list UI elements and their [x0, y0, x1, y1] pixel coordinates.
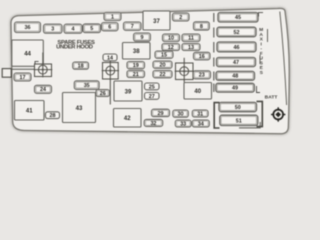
fuse 26: [96, 90, 110, 97]
svg-text:37: 37: [153, 19, 160, 25]
stud bolt B2: [102, 62, 119, 80]
fuse 29: [152, 109, 170, 117]
fuse 50: [219, 102, 257, 111]
svg-text:42: 42: [124, 116, 131, 122]
fuse 25: [145, 83, 160, 90]
fuse 45: [218, 13, 258, 23]
fuse 9: [134, 33, 151, 41]
fuse 28: [46, 112, 60, 119]
fuse 3: [44, 24, 63, 33]
svg-text:1: 1: [111, 14, 114, 20]
svg-text:9: 9: [141, 35, 144, 41]
fuse 27: [145, 93, 160, 100]
wire: stud 1 feed line from tab: [11, 68, 35, 70]
right rail mark B: [259, 55, 261, 64]
fuse 31: [192, 110, 208, 117]
bracket 50/51 right: [257, 101, 263, 126]
maxi fuse right corner bracket top: [259, 13, 264, 17]
svg-text:4: 4: [72, 27, 75, 33]
svg-text:27: 27: [149, 94, 155, 100]
fuse 4: [64, 24, 82, 33]
svg-text:20: 20: [160, 63, 166, 69]
fuse 33: [175, 120, 191, 127]
svg-text:13: 13: [188, 45, 194, 51]
battery terminal bolt: [271, 107, 285, 121]
fuse 13: [182, 44, 200, 51]
svg-text:51: 51: [236, 118, 242, 124]
svg-text:38: 38: [133, 49, 140, 55]
wire: stud 1 vertical: [42, 53, 44, 77]
relay 40: [184, 83, 212, 100]
fuse 51: [220, 115, 258, 125]
fuse 2: [173, 13, 190, 21]
fuse 24: [35, 85, 52, 93]
fuse 49: [216, 83, 255, 92]
fuse box outer housing: [11, 8, 289, 133]
fuse 20: [153, 61, 172, 69]
svg-text:12: 12: [168, 45, 174, 51]
svg-text:30: 30: [178, 112, 184, 118]
stud bolt B1: [34, 63, 53, 77]
fuse 12: [162, 44, 180, 51]
fuse 34: [192, 120, 209, 127]
svg-text:26: 26: [100, 91, 106, 97]
right side inner bevel edge: [280, 12, 287, 106]
svg-text:28: 28: [50, 113, 56, 119]
fuse 17: [14, 73, 31, 81]
fuse 11: [182, 34, 200, 42]
soft scan fuzz under housing outline: [11, 8, 289, 133]
svg-text:2: 2: [179, 15, 182, 21]
fuse 21: [127, 71, 145, 78]
svg-text:35: 35: [84, 83, 90, 89]
fuse 16: [194, 52, 211, 60]
svg-text:25: 25: [149, 84, 155, 90]
svg-text:32: 32: [150, 121, 156, 127]
svg-text:15: 15: [161, 53, 167, 59]
fuse 47: [217, 58, 256, 67]
maxi fuse left rail marks: [213, 13, 215, 22]
svg-text:48: 48: [232, 74, 238, 80]
svg-text:19: 19: [133, 63, 139, 69]
fuse 5: [83, 24, 101, 33]
svg-text:47: 47: [233, 60, 239, 66]
fuse 48: [216, 71, 255, 80]
svg-text:45: 45: [235, 15, 241, 21]
relay 44: [12, 40, 44, 66]
svg-text:33: 33: [180, 121, 186, 127]
svg-text:7: 7: [131, 24, 134, 30]
bracket mark near B1: [35, 61, 39, 64]
svg-text:17: 17: [20, 75, 26, 81]
svg-text:6: 6: [108, 25, 111, 31]
svg-text:40: 40: [194, 89, 201, 95]
fuse 19: [127, 62, 145, 70]
relay 42: [114, 109, 142, 128]
fuse 18: [73, 62, 89, 70]
svg-text:8: 8: [200, 24, 203, 30]
svg-text:50: 50: [235, 105, 241, 111]
fuse 1: [104, 13, 121, 21]
left edge mounting tab: [2, 69, 11, 78]
fuse 52: [217, 27, 256, 37]
fuse 32: [144, 119, 163, 126]
fuse 51 shadow edge: [239, 122, 260, 128]
fuse 46: [217, 42, 256, 52]
svg-text:31: 31: [197, 111, 203, 117]
svg-text:3: 3: [51, 27, 54, 33]
svg-text:16: 16: [199, 54, 205, 60]
svg-text:23: 23: [199, 73, 205, 79]
svg-text:36: 36: [25, 25, 31, 31]
relay 43: [63, 93, 96, 123]
svg-text:21: 21: [133, 72, 139, 78]
fuse 35: [74, 81, 99, 90]
svg-text:44: 44: [24, 51, 31, 57]
svg-text:22: 22: [160, 72, 166, 78]
fuse 15: [155, 51, 173, 59]
svg-text:39: 39: [125, 89, 132, 95]
right rail mark A: [267, 29, 269, 42]
relay 38: [123, 43, 151, 60]
fuse 23: [193, 71, 211, 79]
fuse 10: [163, 34, 180, 42]
svg-text:34: 34: [198, 121, 204, 127]
fuse 7: [124, 22, 142, 30]
fuse 8: [194, 22, 210, 30]
relay 37: [143, 11, 170, 30]
svg-text:43: 43: [76, 106, 83, 112]
svg-text:46: 46: [234, 45, 240, 51]
right bracket mark near BATT: [257, 86, 261, 93]
fuse 6: [102, 23, 119, 31]
wire: stud 2 vertical: [109, 61, 111, 105]
relay 41: [15, 101, 45, 121]
relay 39: [114, 81, 142, 101]
wire: stud 3 vertical: [183, 58, 185, 83]
stud bolt B3: [175, 62, 194, 80]
svg-text:49: 49: [232, 86, 238, 92]
svg-text:18: 18: [78, 64, 84, 70]
svg-text:BATT: BATT: [265, 94, 278, 100]
fuse 22: [153, 71, 172, 79]
svg-text:52: 52: [234, 30, 240, 36]
fuse 36: [15, 22, 41, 33]
svg-text:41: 41: [26, 109, 33, 115]
fuse 30: [173, 110, 189, 118]
svg-text:10: 10: [168, 36, 174, 42]
svg-text:29: 29: [158, 111, 164, 117]
svg-text:14: 14: [107, 55, 113, 61]
svg-text:5: 5: [90, 26, 93, 32]
svg-text:UNDER HOOD: UNDER HOOD: [56, 45, 93, 51]
svg-text:11: 11: [188, 36, 194, 42]
bracket 50/51 left: [214, 103, 219, 128]
svg-text:24: 24: [40, 87, 46, 93]
fuse 14: [103, 54, 117, 61]
